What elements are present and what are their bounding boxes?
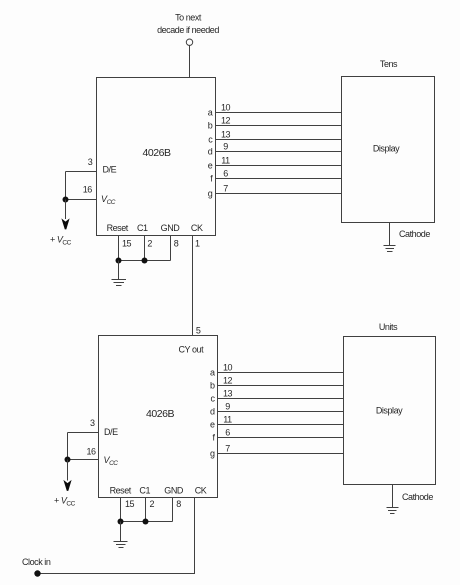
- power arrow +VCC (tens): [61, 218, 69, 229]
- wire: U2 segment b to units display: [218, 385, 344, 387]
- wire: U2 segment a to units display: [218, 372, 344, 374]
- svg-text:6: 6: [223, 168, 228, 178]
- IC U1 4026B decade counter (tens) body: [97, 78, 216, 236]
- display D1 (tens display) body: [342, 77, 435, 223]
- wire: junction to +VCC arrow (units): [67, 460, 69, 481]
- wire: U1 VCC pin 16: [66, 199, 97, 201]
- svg-text:10: 10: [221, 102, 231, 112]
- svg-text:13: 13: [223, 388, 233, 398]
- svg-text:GND: GND: [164, 486, 184, 496]
- junction dot (U2 Reset): [118, 519, 124, 525]
- wire: U2 pin 3 to pin 16 vertical: [67, 433, 69, 460]
- svg-text:VCC: VCC: [104, 455, 119, 467]
- svg-text:CK: CK: [191, 223, 203, 233]
- svg-text:3: 3: [90, 418, 95, 428]
- IC U2 4026B decade counter (units) body: [99, 336, 218, 498]
- junction dot (U2 D/E, VCC, +VCC): [65, 457, 71, 463]
- svg-text:d: d: [208, 147, 213, 157]
- svg-text:D/E: D/E: [103, 165, 117, 175]
- wire: U2 segment e to units display: [218, 424, 344, 426]
- svg-text:6: 6: [225, 427, 230, 437]
- svg-text:4026B: 4026B: [142, 147, 171, 159]
- wire: U1 segment c to tens display: [216, 139, 342, 141]
- display D2 (units display) body: [344, 337, 436, 485]
- junction dot (U1 C1): [142, 258, 148, 264]
- wire: U1 segment a to tens display: [216, 112, 342, 114]
- wire: U1 CK pin to U2 CY out: [192, 236, 194, 336]
- svg-text:C1: C1: [139, 486, 150, 496]
- wire: U2 CK pin down: [194, 498, 196, 575]
- svg-text:CY out: CY out: [178, 345, 204, 355]
- svg-text:4026B: 4026B: [146, 408, 175, 420]
- wire: D2 cathode to ground: [392, 485, 394, 508]
- svg-text:12: 12: [223, 375, 233, 385]
- svg-text:Cathode: Cathode: [402, 492, 433, 502]
- label: To next decade if needed: [157, 13, 219, 36]
- svg-text:Units: Units: [379, 322, 398, 332]
- wire: U1 segment e to tens display: [216, 165, 342, 167]
- wire: junction to +VCC arrow: [65, 200, 67, 220]
- wire: D1 cathode to ground: [389, 223, 391, 246]
- svg-text:e: e: [208, 161, 213, 171]
- svg-text:9: 9: [223, 141, 228, 151]
- wire: U2 Reset pin stem: [120, 498, 122, 522]
- ground (units display cathode): [387, 508, 399, 514]
- wire: U2 segment g to units display: [218, 453, 344, 455]
- svg-text:c: c: [210, 394, 215, 404]
- svg-text:Reset: Reset: [107, 223, 129, 233]
- svg-text:d: d: [210, 407, 215, 417]
- wire: U2 segment c to units display: [218, 398, 344, 400]
- svg-text:3: 3: [88, 157, 93, 167]
- ground (U2 reset/C1/GND): [114, 542, 128, 548]
- junction dot (U2 C1): [143, 519, 149, 525]
- terminal dot: clock input: [34, 570, 40, 576]
- wire: U1 Reset/C1/GND bus: [119, 260, 171, 262]
- wire: U1 segment b to tens display: [216, 125, 342, 127]
- svg-text:f: f: [212, 433, 215, 443]
- svg-text:16: 16: [86, 447, 96, 457]
- svg-text:decade if needed: decade if needed: [157, 25, 219, 35]
- svg-text:CK: CK: [195, 486, 207, 496]
- svg-text:7: 7: [223, 183, 228, 193]
- svg-text:f: f: [210, 174, 213, 184]
- svg-text:11: 11: [223, 414, 232, 424]
- wire: U1 segment f to tens display: [216, 178, 342, 180]
- svg-text:2: 2: [150, 499, 155, 509]
- ground (tens display cathode): [384, 246, 396, 252]
- svg-text:Cathode: Cathode: [399, 229, 430, 239]
- svg-text:a: a: [208, 108, 213, 118]
- svg-text:5: 5: [196, 326, 201, 336]
- svg-text:9: 9: [225, 401, 230, 411]
- svg-text:10: 10: [223, 362, 233, 372]
- wire: U2 D/E pin 3: [68, 432, 99, 434]
- svg-text:Reset: Reset: [110, 486, 132, 496]
- svg-text:GND: GND: [161, 223, 181, 233]
- junction dot (U1 Reset): [116, 258, 122, 264]
- svg-text:2: 2: [147, 238, 152, 248]
- svg-text:Display: Display: [373, 144, 400, 154]
- svg-text:Tens: Tens: [380, 59, 398, 69]
- svg-text:8: 8: [174, 238, 179, 248]
- svg-text:15: 15: [125, 499, 135, 509]
- svg-text:+ VCC: + VCC: [50, 234, 72, 246]
- svg-text:b: b: [210, 381, 215, 391]
- svg-text:+ VCC: + VCC: [54, 496, 76, 508]
- svg-text:b: b: [208, 121, 213, 131]
- ground (U1 reset/C1/GND): [112, 280, 127, 286]
- svg-text:7: 7: [225, 443, 230, 453]
- svg-text:12: 12: [221, 115, 231, 125]
- wire: U2 C1 pin stem: [145, 498, 147, 522]
- wire: U2 GND pin stem: [172, 498, 174, 522]
- power arrow +VCC (units): [63, 480, 71, 491]
- wire: pin 3 to pin 16 vertical: [65, 172, 67, 200]
- wire: U2 VCC pin 16: [68, 459, 99, 461]
- svg-text:16: 16: [83, 185, 93, 195]
- wire: U1 C1 pin stem: [144, 236, 146, 261]
- svg-text:C1: C1: [137, 223, 148, 233]
- svg-text:Clock in: Clock in: [22, 557, 51, 567]
- wire: U1 Reset pin stem: [118, 236, 120, 261]
- wire: U1 segment d to tens display: [216, 151, 342, 153]
- svg-text:15: 15: [122, 238, 132, 248]
- wire: U2 segment d to units display: [218, 411, 344, 413]
- svg-text:a: a: [210, 368, 215, 378]
- terminal: next-decade output (open circle): [186, 39, 192, 45]
- wire: U2 Reset/C1/GND bus: [121, 521, 173, 523]
- svg-text:1: 1: [195, 238, 200, 248]
- wire: U1 segment g to tens display: [216, 193, 342, 195]
- wire: U2 reset bus to ground: [120, 522, 122, 542]
- wire: U2 segment f to units display: [218, 437, 344, 439]
- svg-text:To next: To next: [175, 13, 202, 23]
- junction dot (D/E, VCC, +VCC): [63, 197, 69, 203]
- svg-text:g: g: [210, 449, 215, 459]
- svg-text:Display: Display: [376, 406, 403, 416]
- svg-text:D/E: D/E: [104, 427, 118, 437]
- svg-text:g: g: [208, 189, 213, 199]
- svg-text:c: c: [208, 135, 213, 145]
- svg-text:13: 13: [221, 129, 231, 139]
- svg-text:VCC: VCC: [101, 194, 116, 206]
- svg-text:8: 8: [176, 499, 181, 509]
- wire: clock input to U2 CK: [38, 573, 195, 575]
- wire: U1 D/E pin 3: [66, 171, 97, 173]
- wire: U1 GND pin stem: [170, 236, 172, 261]
- svg-text:e: e: [210, 420, 215, 430]
- svg-text:11: 11: [221, 155, 230, 165]
- wire: terminal to U1 top edge: [189, 45, 191, 77]
- wire: U1 reset bus to ground: [118, 261, 120, 280]
